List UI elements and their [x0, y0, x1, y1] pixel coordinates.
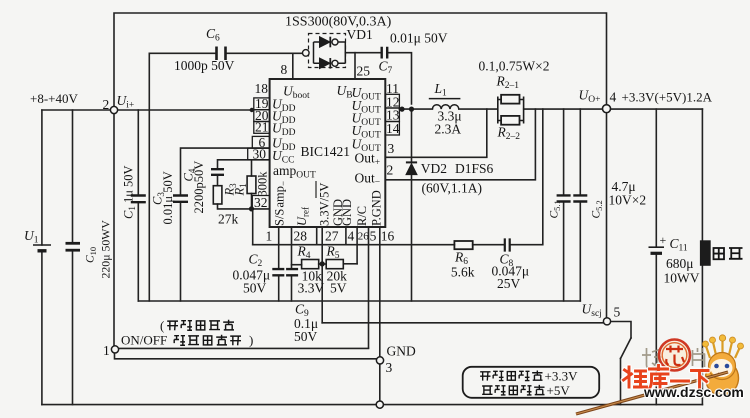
pin box 20 — [254, 110, 270, 122]
svg-text:R/C: R/C — [355, 206, 369, 226]
mascot stick — [576, 372, 728, 414]
svg-text:25: 25 — [357, 64, 371, 79]
wire left input branch down to battery U1 — [41, 110, 43, 245]
svg-text:1: 1 — [266, 229, 273, 244]
svg-text:27: 27 — [325, 229, 339, 244]
terminal node 3 circle — [376, 357, 383, 364]
wire pin1 stub down through C2 to gnd rail — [278, 227, 280, 301]
svg-text:50V: 50V — [243, 281, 267, 296]
switch blade on Uscj to gnd — [621, 338, 632, 359]
wire R6 to C8 — [473, 244, 505, 246]
resistor R3 — [213, 186, 222, 204]
wire node4 to node5 vertical — [606, 113, 608, 317]
wire C11 branch — [655, 109, 657, 405]
wire C7 right, down to switch node — [388, 53, 412, 104]
svg-text:+5V: +5V — [547, 383, 571, 398]
wire C3 branch: pin6 wire elbow down through C3 to gnd rail — [181, 148, 270, 301]
wire C1 branch bottom to gnd rail — [137, 203, 139, 302]
junction dot switch node b — [409, 107, 414, 112]
wire divider 28|27 — [316, 227, 318, 245]
svg-text:300k: 300k — [256, 171, 270, 197]
resistor R1 — [247, 176, 256, 194]
svg-text:+3.3V: +3.3V — [545, 369, 579, 384]
svg-text:): ) — [249, 333, 253, 348]
wire C5.2 branch — [579, 109, 581, 301]
svg-text:www.dzsc.com: www.dzsc.com — [643, 384, 744, 400]
wire pin8 riser — [292, 53, 294, 79]
output note rounded box — [463, 367, 600, 398]
svg-text:50V: 50V — [294, 329, 318, 344]
wire L1 right to R2 — [459, 108, 498, 110]
pin box 12 — [385, 94, 399, 108]
yi — [672, 380, 689, 383]
wire ON/OFF lower from node1 to GND node3 — [115, 354, 377, 359]
diode VD1 dual in dashed box — [309, 34, 346, 68]
junction dot rail/pin19 — [250, 108, 254, 112]
capacitor C7 — [382, 47, 388, 59]
wire Uscj from divider down-right to node 5 — [322, 322, 603, 324]
svg-text:10WV: 10WV — [664, 271, 700, 286]
svg-text:25V: 25V — [497, 276, 521, 291]
svg-text:220μ 50WV: 220μ 50WV — [99, 220, 113, 279]
svg-text:27k: 27k — [218, 212, 239, 227]
capacitor C9 symbol — [286, 269, 298, 275]
svg-text:3: 3 — [388, 141, 395, 156]
svg-text:2200p50V: 2200p50V — [192, 161, 206, 214]
wire pin32 junction down to W1 rail — [252, 209, 254, 245]
pin box 14 — [385, 122, 399, 136]
pin box 30 — [248, 148, 270, 160]
pin box 13 — [385, 108, 399, 122]
pin box 32 — [252, 196, 269, 209]
note cjk line1: kai lu shi jie zhi — [167, 320, 234, 331]
svg-text:3.3V/5V: 3.3V/5V — [318, 183, 332, 226]
svg-text:5: 5 — [370, 229, 377, 244]
svg-text:14: 14 — [386, 121, 400, 136]
svg-text:S/S: S/S — [273, 209, 287, 226]
capacitor C8 — [505, 238, 510, 251]
wire C10 branch top — [72, 110, 74, 243]
svg-text:26: 26 — [358, 231, 370, 243]
wire C10 branch bottom — [72, 251, 74, 405]
inductor L1 — [432, 105, 458, 109]
svg-text:5.6k: 5.6k — [451, 265, 475, 280]
svg-text:2.3A: 2.3A — [435, 122, 462, 137]
svg-text:VD1: VD1 — [347, 27, 373, 42]
wire battery U1 bottom to bottom rail — [41, 252, 43, 405]
diode VD2 — [406, 161, 417, 163]
wire pin5 stub down through node3 to bottom rail — [379, 227, 381, 405]
junction dot switch node a — [399, 107, 404, 112]
pin box 21 — [254, 122, 270, 134]
load label cjk: fu zai — [714, 248, 743, 259]
wire gnd rail y=301 — [138, 300, 580, 302]
svg-text:D1FS6: D1FS6 — [455, 161, 494, 176]
wire R5 right to pin4 riser — [343, 263, 357, 265]
wire pin3 Out+ to output rail — [385, 109, 487, 157]
svg-text:P.GND: P.GND — [370, 190, 384, 226]
svg-text:4: 4 — [348, 229, 355, 244]
svg-text:1: 1 — [103, 343, 110, 358]
svg-text:0.01μ 50V: 0.01μ 50V — [390, 31, 448, 46]
svg-text:GND: GND — [340, 199, 354, 226]
svg-text:2: 2 — [387, 163, 394, 178]
svg-text:BIC1421: BIC1421 — [301, 144, 351, 159]
svg-text:0.1,0.75W×2: 0.1,0.75W×2 — [479, 59, 550, 74]
wire R1 bottom to junction dot — [251, 194, 253, 209]
svg-text:1SS300(80V,0.3A): 1SS300(80V,0.3A) — [285, 15, 392, 30]
wire C6 right to VD1 — [226, 52, 303, 54]
wire C1 branch top — [137, 110, 139, 195]
resistor R4 — [302, 260, 319, 269]
watermark group — [576, 335, 744, 414]
wire IC switch-node output pins to L1 — [399, 108, 432, 110]
capacitor C6 — [217, 47, 226, 61]
wire R1 branch top — [251, 160, 253, 176]
wei — [624, 367, 647, 387]
junction dot R4/R5 divider — [320, 261, 325, 266]
svg-text:10V×2: 10V×2 — [609, 193, 647, 208]
capacitor C4 — [211, 169, 224, 175]
svg-text:(: ( — [160, 318, 164, 333]
mascot head — [709, 353, 736, 380]
wire VD1 right to C7 — [346, 52, 382, 54]
wire C6 riser from C6 left down to gnd rail — [148, 53, 150, 301]
mascot face — [711, 359, 733, 377]
wire pin27 stub down through R4R5 dot to Uscj wire — [321, 227, 323, 323]
svg-text:4: 4 — [610, 90, 617, 105]
pin box 6 — [252, 136, 269, 148]
capacitor C2 — [272, 269, 284, 275]
svg-text:C1 1μ 50V: C1 1μ 50V — [122, 165, 138, 219]
wire C4 bottom to R3 top — [217, 175, 219, 186]
svg-text:18: 18 — [255, 81, 269, 96]
capacitor C11 electrolytic — [649, 246, 665, 248]
capacitor C5.2 — [573, 195, 587, 201]
wire R2 right to node4 and on to load corner — [524, 108, 703, 110]
wire C6 top wire to VD1 left terminal — [149, 52, 216, 54]
capacitor C3 — [173, 196, 188, 202]
capacitor C5.1 — [557, 195, 571, 201]
wire pin28 stub down through C9 cap to gnd rail — [291, 227, 293, 301]
wire pin25 riser — [354, 53, 356, 79]
wire C5.1 branch — [563, 109, 565, 301]
wire top rail from input branch to output node 4 — [114, 13, 607, 110]
svg-text:28: 28 — [294, 229, 308, 244]
wire pin2 Out- elbow up to output rail — [385, 109, 535, 180]
battery U1 — [33, 244, 51, 246]
junction dot R3/R1/pin32 — [249, 206, 254, 211]
box line1 cjk: kai lu shi shu chu — [480, 370, 542, 380]
wire W1 horizontal under pin row to R6 — [253, 244, 455, 246]
svg-text:8: 8 — [281, 62, 288, 77]
wire C8 right elbow up to output rail — [510, 109, 543, 245]
watermark red stamp ring — [659, 340, 690, 371]
svg-text:ON/OFF: ON/OFF — [121, 333, 167, 348]
L1 label underline — [429, 98, 461, 100]
svg-text:VD2: VD2 — [421, 161, 447, 176]
wire jog pin28 to R4 left — [292, 264, 302, 266]
terminal node 5 circle — [603, 318, 610, 325]
wire pin26 stub down to ON/OFF wire — [368, 227, 370, 348]
terminal node 2 circle — [110, 106, 117, 113]
svg-text:680μ: 680μ — [666, 256, 694, 271]
svg-text:+3.3V(+5V)1.2A: +3.3V(+5V)1.2A — [622, 90, 713, 105]
wire bottom outer rail — [42, 404, 703, 406]
wire R3 bottom to pin32 junction — [218, 204, 270, 209]
svg-text:+8-+40V: +8-+40V — [30, 91, 78, 106]
svg-text:21: 21 — [255, 120, 269, 135]
xia — [692, 371, 709, 388]
ku — [649, 366, 668, 390]
box line2 cjk: duan lu shi shu chu — [482, 385, 544, 395]
wire input rail +Vin y=110 — [42, 109, 252, 111]
wire switch bottom to bottom rail — [620, 359, 622, 405]
stamp inner xin strokes — [666, 346, 684, 366]
overline over 5V part — [315, 181, 317, 198]
svg-text:16: 16 — [381, 229, 395, 244]
svg-text:0.01μ 50V: 0.01μ 50V — [161, 171, 175, 224]
IC U1 BIC1421 body — [270, 79, 386, 227]
wire node2 down to node1 ON/OFF — [113, 110, 115, 345]
mascot body — [706, 361, 739, 396]
resistor R2-1 / R2-2 parallel pair — [498, 97, 524, 124]
svg-text:1000p 50V: 1000p 50V — [174, 58, 235, 73]
resistor R6 — [454, 241, 472, 249]
wire load branch down — [701, 109, 703, 405]
svg-text:30: 30 — [253, 147, 267, 162]
wire R4-R5 link — [319, 263, 327, 265]
terminal circle on bottom rail below node3 — [376, 401, 383, 408]
wire divider 27|4 — [345, 227, 347, 245]
wire pin4 stub down to R5 right wire — [356, 227, 358, 264]
svg-text:3: 3 — [386, 360, 393, 375]
svg-text:GND: GND — [387, 344, 416, 359]
svg-text:+: + — [660, 233, 667, 247]
svg-text:5V: 5V — [330, 281, 347, 296]
pin box 19 — [254, 98, 270, 110]
terminal node 1 circle — [111, 346, 118, 353]
mascot crown spikes — [706, 340, 740, 358]
wire node5 right elbow down to switch — [612, 322, 632, 339]
capacitor C1 — [131, 196, 146, 203]
svg-text:(60V,1.1A): (60V,1.1A) — [422, 181, 483, 196]
watermark outlined cjk: zhao xin pian — [642, 348, 705, 369]
watermark red text wei ku yi xia (white halo under) — [624, 366, 709, 390]
svg-text:2: 2 — [103, 97, 110, 112]
wire VD2 line: switch node down through VD2 to gnd rail — [411, 109, 413, 301]
load resistor (filled) — [700, 241, 710, 265]
svg-text:5: 5 — [614, 305, 621, 320]
capacitor C10 electrolytic — [66, 242, 81, 245]
note cjk line2: jie di shi dao tong — [174, 335, 241, 346]
terminal node 4 circle — [603, 105, 611, 113]
wire ON/OFF upper from node1 — [120, 347, 369, 349]
resistor R5 — [326, 260, 343, 269]
svg-text:3.3V: 3.3V — [298, 281, 325, 296]
wire pin30 wire to C4/R3 branch — [218, 160, 270, 169]
